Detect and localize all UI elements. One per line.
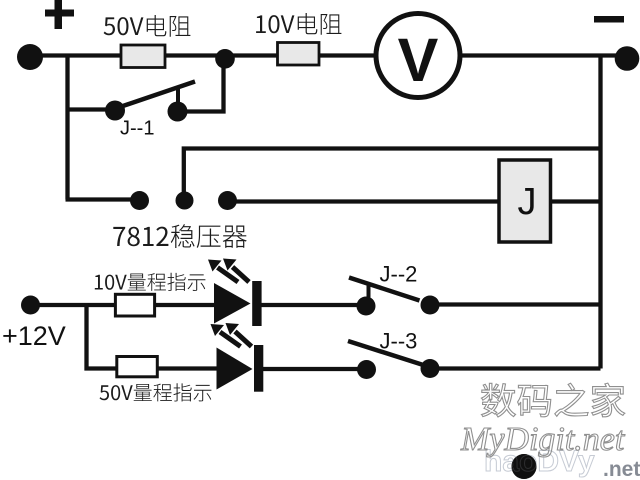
svg-text:J--1: J--1	[120, 118, 154, 140]
label 50V电阻	[104, 15, 191, 37]
switch J--2	[349, 278, 440, 316]
wire top rail from + terminal to 50V resistor	[40, 53, 121, 57]
wire node A down to switch J--1 right	[186, 62, 224, 112]
wire +12V branch down to 50V range resistor	[87, 303, 118, 369]
LED D2	[217, 345, 264, 392]
terminal +12V	[21, 296, 40, 315]
wire voltmeter to - terminal	[459, 53, 620, 57]
wire negative bus vertical	[598, 56, 602, 369]
regulator 7812 pin GND	[176, 192, 194, 210]
wire 7812 ground pin up to negative bus	[184, 149, 599, 195]
voltmeter V	[376, 14, 460, 98]
wire relay coil J to negative bus	[549, 199, 599, 203]
terminal + positive post	[17, 0, 74, 70]
svg-text:V: V	[398, 26, 439, 94]
svg-text:+12V: +12V	[2, 321, 66, 351]
watermark 数码之家 outline	[481, 383, 624, 417]
resistor 50V range	[117, 357, 158, 377]
resistor 10V range	[115, 294, 154, 316]
switch J--1	[105, 82, 195, 122]
wire + rail to 7812 input pin	[66, 197, 133, 201]
wire LED D2 cathode to switch J--3	[263, 367, 358, 371]
regulator 7812 pin OUT	[218, 191, 237, 210]
terminal - negative post	[594, 16, 639, 71]
svg-text:J--3: J--3	[380, 329, 418, 354]
label 10V电阻	[256, 13, 341, 35]
svg-text:J: J	[518, 181, 537, 223]
wire left + rail vertical	[65, 54, 69, 200]
bottom terminal	[512, 454, 537, 479]
resistor 10V (10V电阻)	[278, 43, 320, 66]
node A junction after 50V resistor	[215, 49, 235, 69]
LED D1	[214, 281, 262, 326]
wire 50V range resistor to LED D2	[157, 366, 218, 370]
wire switch J--3 to negative bus	[438, 366, 601, 370]
LED D1 emission arrows	[208, 259, 249, 283]
relay coil J	[499, 160, 551, 242]
wire 7812 output pin to relay coil J	[235, 199, 500, 203]
bottom terminal overlay	[512, 454, 537, 479]
wire 50V resistor to 10V resistor through node A	[165, 53, 278, 57]
wire LED D1 cathode to switch J--2	[261, 303, 358, 307]
switch J--3	[348, 341, 440, 379]
label 50V量程指示	[100, 383, 212, 401]
regulator 7812 pin IN	[130, 191, 149, 210]
wire stub to switch J--1 left	[68, 107, 109, 111]
svg-text:MyDigit.net: MyDigit.net	[460, 421, 626, 458]
wire 10V resistor to voltmeter	[319, 53, 377, 57]
label 10V量程指示	[95, 273, 206, 291]
label 7812稳压器	[113, 224, 247, 248]
svg-text:J--2: J--2	[380, 262, 418, 287]
resistor 50V (50V电阻)	[121, 45, 165, 68]
wire 10V range resistor to LED D1	[154, 303, 216, 307]
wire +12V terminal to 10V range resistor	[38, 303, 116, 307]
LED D2 emission arrows	[211, 323, 252, 347]
wire switch J--2 to negative bus	[438, 302, 601, 306]
svg-text:.net: .net	[603, 458, 640, 480]
